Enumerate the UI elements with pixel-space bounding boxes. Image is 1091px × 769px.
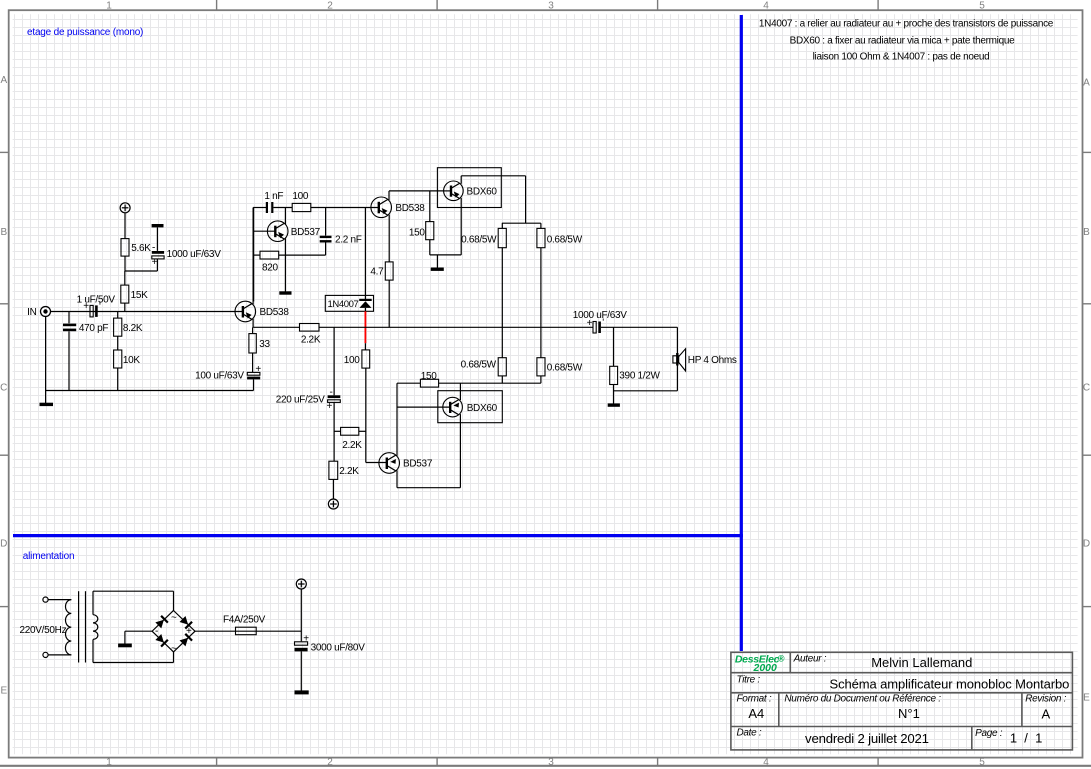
svg-text:Format :: Format : <box>737 694 772 705</box>
wire IN to ground rail <box>45 317 47 391</box>
svg-text:Revision :: Revision : <box>1025 694 1066 705</box>
ground (bridge) <box>118 644 132 648</box>
svg-text:3: 3 <box>548 0 554 11</box>
blue section divider horizontal <box>13 534 743 537</box>
bridge rectifier diamond <box>152 611 195 652</box>
svg-text:B: B <box>1083 227 1090 238</box>
svg-text:4.7: 4.7 <box>370 267 384 278</box>
svg-text:Numéro du Document ou Référenc: Numéro du Document ou Référence : <box>784 694 941 705</box>
svg-text:D: D <box>1083 539 1090 550</box>
svg-text:1 uF/50V: 1 uF/50V <box>77 295 116 306</box>
svg-text:100 uF/63V: 100 uF/63V <box>195 371 244 382</box>
transistor U BDX60 (top) with package box <box>437 168 501 208</box>
svg-text:-: - <box>155 626 158 637</box>
blue section divider vertical <box>740 15 743 651</box>
svg-text:1: 1 <box>106 757 112 768</box>
capacitor C 1uF/50V <box>83 301 101 317</box>
diode bridge top-left <box>155 616 168 629</box>
capacitor 220 uF/25V <box>326 327 340 461</box>
power terminal + (top) <box>120 203 130 213</box>
title block labels <box>737 654 1067 739</box>
svg-text:Auteur :: Auteur : <box>793 654 827 665</box>
input terminal IN <box>41 307 51 317</box>
diode 1N4007 <box>325 295 373 311</box>
svg-text:33: 33 <box>259 339 270 350</box>
resistor 33 <box>249 327 256 372</box>
capacitor 100 uF/63V <box>247 364 261 391</box>
svg-text:Schéma amplificateur monobloc: Schéma amplificateur monobloc Montarbo <box>830 677 1070 692</box>
capacitor 2.2 nF <box>320 208 332 256</box>
speaker HP <box>673 349 686 371</box>
wire output rail <box>253 326 299 328</box>
svg-text:220V/50Hz: 220V/50Hz <box>20 625 67 636</box>
svg-text:10K: 10K <box>123 355 141 366</box>
resistor 2.2K (feedback) <box>300 324 594 332</box>
wire bridge minus to ground <box>125 631 152 644</box>
svg-text:+: + <box>186 626 192 637</box>
svg-text:A: A <box>1083 78 1090 89</box>
svg-text:1: 1 <box>106 0 112 11</box>
resistor 15K <box>121 271 129 312</box>
ground (output network) <box>608 403 620 406</box>
svg-text:~: ~ <box>171 612 177 623</box>
svg-text:Titre :: Titre : <box>737 675 761 686</box>
svg-text:alimentation: alimentation <box>23 551 75 562</box>
svg-text:2.2 nF: 2.2 nF <box>335 234 362 245</box>
wire BDX60 bottom collector up <box>459 383 461 400</box>
wire bottom ground rail <box>46 390 254 392</box>
wire BD537 lower emitter down <box>397 470 460 487</box>
resistor 4.7 <box>385 262 393 327</box>
svg-text:B: B <box>0 227 7 238</box>
svg-text:0.68/5W: 0.68/5W <box>461 235 497 246</box>
svg-text:220 uF/25V: 220 uF/25V <box>276 395 325 406</box>
svg-text:3: 3 <box>548 757 554 768</box>
svg-text:3000 uF/80V: 3000 uF/80V <box>311 643 366 654</box>
transformer T1 220V/50Hz <box>43 591 98 662</box>
resistor 150 (bottom) <box>397 379 541 387</box>
wire secondary bottom <box>93 652 174 663</box>
svg-text:IN: IN <box>27 307 36 318</box>
svg-text:+: + <box>326 401 332 412</box>
transistor Q BD538 (driver) <box>371 197 392 218</box>
svg-text:1N4007 : a relier au radiateur: 1N4007 : a relier au radiateur au + proc… <box>759 19 1054 30</box>
resistor 0.68/5W (top right) <box>537 228 545 357</box>
wire red (1N4007 to 100) <box>364 311 366 343</box>
svg-text:1 / 1: 1 / 1 <box>1010 730 1043 745</box>
svg-text:4: 4 <box>763 0 769 11</box>
svg-text:+: + <box>303 633 309 644</box>
svg-text:BDX60: BDX60 <box>467 187 498 198</box>
transistor U BDX60 (bottom) with package box <box>397 391 502 423</box>
svg-text:+: + <box>152 257 158 268</box>
svg-text:1000 uF/63V: 1000 uF/63V <box>167 249 222 260</box>
svg-text:1000 uF/63V: 1000 uF/63V <box>573 310 628 321</box>
resistor 0.68/5W (bottom left) <box>498 358 506 384</box>
wire bridge plus to fuse <box>195 630 236 632</box>
wire input line <box>51 311 243 313</box>
svg-text:0.68/5W: 0.68/5W <box>461 360 497 371</box>
svg-text:2000: 2000 <box>753 662 778 674</box>
wire black below red <box>364 343 366 350</box>
power terminal + (supply) <box>296 579 306 589</box>
wire BDX60 top collector <box>461 176 541 229</box>
wire BD537 lower collector up <box>396 383 398 456</box>
wire output to speaker <box>614 327 678 391</box>
svg-text:100: 100 <box>292 191 309 202</box>
svg-text:0.68/5W: 0.68/5W <box>547 235 583 246</box>
resistor 820 <box>254 251 326 259</box>
svg-text:N°1: N°1 <box>898 706 920 721</box>
svg-text:E: E <box>1083 693 1090 704</box>
title block <box>731 652 1073 750</box>
resistor 8.2K <box>114 312 122 337</box>
svg-text:HP 4 Ohms: HP 4 Ohms <box>688 355 737 366</box>
wire BDX60 bottom emitter down <box>459 414 461 488</box>
capacitor 1000 uF/63V (bias) <box>152 226 165 271</box>
svg-text:A: A <box>0 75 7 86</box>
svg-text:100: 100 <box>344 355 361 366</box>
svg-text:A: A <box>1041 707 1050 722</box>
ground (supply) <box>295 690 309 694</box>
fuse F4A/250V <box>236 627 302 635</box>
wire BD538 collector up <box>252 208 254 305</box>
svg-text:Page :: Page : <box>975 728 1003 739</box>
svg-text:1N4007: 1N4007 <box>328 299 359 310</box>
ground (BD537 emitter) <box>279 291 291 294</box>
svg-text:BD537: BD537 <box>291 227 321 238</box>
svg-text:150: 150 <box>421 371 438 382</box>
svg-text:2.2K: 2.2K <box>342 440 362 451</box>
svg-text:2.2K: 2.2K <box>339 466 359 477</box>
ground (driver stage) <box>431 255 444 269</box>
diode bridge bottom-right <box>179 634 192 647</box>
wire BD538 driver collector <box>389 191 451 200</box>
capacitor 470 pF <box>63 312 76 391</box>
wire BD538 driver emitter <box>388 215 390 262</box>
svg-text:2: 2 <box>327 0 333 11</box>
svg-text:4: 4 <box>763 757 769 768</box>
capacitor 1nF <box>267 202 292 213</box>
svg-text:C: C <box>0 383 7 394</box>
ground (input) <box>40 391 54 405</box>
svg-text:390 1/2W: 390 1/2W <box>619 371 660 382</box>
svg-text:5: 5 <box>979 757 985 768</box>
wire 150 to emitter node <box>430 254 461 256</box>
svg-text:BD537: BD537 <box>403 459 433 470</box>
svg-text:vendredi 2 juillet 2021: vendredi 2 juillet 2021 <box>805 731 929 746</box>
svg-text:0.68/5W: 0.68/5W <box>547 363 583 374</box>
diode bridge top-right <box>179 616 192 629</box>
wire top node line <box>253 207 266 209</box>
resistor 150 (top) <box>426 191 434 255</box>
svg-text:A4: A4 <box>748 706 764 721</box>
resistor 0.68/5W (top left) <box>498 228 506 357</box>
wire supply node <box>300 589 302 641</box>
logo DessElec 2000 <box>735 653 785 674</box>
wire left vertical node <box>253 208 255 302</box>
svg-text:BD538: BD538 <box>395 203 425 214</box>
svg-text:-: - <box>152 243 155 254</box>
diode bridge bottom-left <box>155 634 168 647</box>
svg-text:15K: 15K <box>131 290 149 301</box>
svg-text:BDX60 : a fixer au radiateur v: BDX60 : a fixer au radiateur via mica + … <box>790 35 1015 46</box>
svg-text:BDX60: BDX60 <box>467 403 498 414</box>
svg-text:Melvin Lallemand: Melvin Lallemand <box>871 655 972 670</box>
capacitor 3000 uF/80V <box>295 633 310 690</box>
title block values <box>748 655 1069 746</box>
svg-text:1 nF: 1 nF <box>264 191 283 202</box>
wire BD537 collector up <box>284 208 286 225</box>
wire BD537 emitter down to ground <box>284 238 286 291</box>
svg-text:F4A/250V: F4A/250V <box>223 614 266 625</box>
svg-text:2.2K: 2.2K <box>301 334 321 345</box>
resistor 2.2K (horizontal lower) <box>334 427 366 435</box>
svg-text:-: - <box>329 387 332 398</box>
svg-text:BD538: BD538 <box>260 307 290 318</box>
resistor 100 (bias) <box>362 350 387 463</box>
svg-text:D: D <box>0 539 7 550</box>
resistor 100 (top) <box>292 203 379 211</box>
resistor 2.2K (vertical lower) <box>329 461 338 499</box>
svg-text:+: + <box>255 364 261 375</box>
transistor Q BD537 (lower driver) <box>379 453 400 474</box>
capacitor 1000 uF/63V (output) <box>587 318 678 334</box>
svg-text:®: ® <box>778 653 785 663</box>
resistor 0.68/5W (bottom right) <box>537 358 545 384</box>
transistor Q BD537 (VAS) <box>254 221 288 242</box>
resistor 390 1/2W <box>610 327 618 403</box>
svg-text:470 pF: 470 pF <box>79 323 109 334</box>
power terminal + (bottom) <box>328 499 338 509</box>
wire BD538 emitter down <box>252 319 254 328</box>
svg-text:2: 2 <box>327 757 333 768</box>
svg-text:etage de puissance (mono): etage de puissance (mono) <box>27 27 143 38</box>
svg-text:150: 150 <box>409 228 426 239</box>
resistor 10K <box>114 336 122 390</box>
resistor 5.6K <box>121 213 129 271</box>
wire node to diode <box>364 208 366 296</box>
svg-text:~: ~ <box>171 644 177 655</box>
wire secondary top <box>93 591 174 610</box>
svg-text:8.2K: 8.2K <box>123 323 143 334</box>
svg-text:5: 5 <box>979 0 985 11</box>
svg-text:820: 820 <box>262 263 279 274</box>
bottom outer frame line <box>0 765 1091 767</box>
svg-text:C: C <box>1083 383 1090 394</box>
wire BDX60 top emitter <box>460 198 462 255</box>
svg-text:liaison 100 Ohm & 1N4007 : pas: liaison 100 Ohm & 1N4007 : pas de noeud <box>813 51 990 62</box>
wire node 5.6K/15K/1000uF <box>125 270 158 272</box>
schematic labels <box>20 187 737 655</box>
transistor Q BD538 input <box>235 301 256 322</box>
svg-text:Date :: Date : <box>737 728 762 739</box>
svg-text:5.6K: 5.6K <box>131 243 151 254</box>
svg-text:E: E <box>0 686 7 697</box>
